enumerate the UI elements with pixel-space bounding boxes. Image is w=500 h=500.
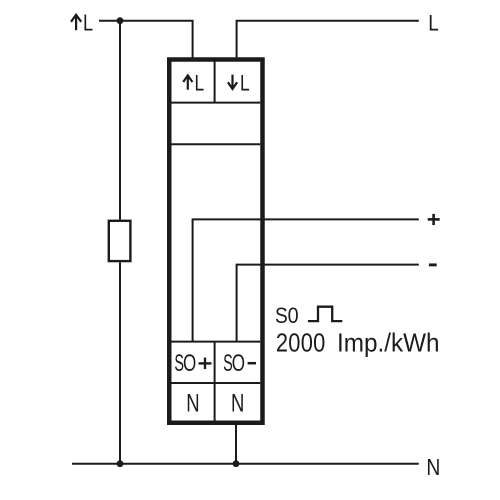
svg-text:N: N	[231, 389, 244, 417]
wire N line	[72, 463, 419, 465]
label - (SO- output)	[429, 263, 437, 266]
wire from ↑L label to meter top terminal	[99, 21, 193, 59]
svg-text:L: L	[195, 72, 205, 96]
svg-text:N: N	[426, 456, 440, 481]
terminal label SO+	[174, 350, 196, 377]
wire from meter ↓L terminal up and right to L	[237, 21, 419, 59]
S0 pulse symbol	[308, 307, 342, 321]
svg-text:O: O	[183, 350, 196, 377]
svg-text:L: L	[240, 72, 250, 96]
wire SO+ output	[193, 219, 419, 341]
wire from fuse down to N line	[119, 262, 121, 463]
label 2000 Imp./kWh	[276, 329, 440, 358]
wire from meter N terminal down to N line	[235, 425, 237, 464]
junction dot B (fuse branch on N line)	[117, 460, 124, 467]
terminal label ↓L arrow (cell 2)	[228, 75, 237, 89]
junction dot C (meter N on N line)	[233, 460, 240, 467]
meter bottom terminal divider	[214, 342, 216, 421]
label S0	[275, 304, 299, 329]
junction dot A	[117, 17, 124, 24]
meter terminal divider between ↑L and ↓L cells	[214, 60, 216, 103]
svg-text:Imp./kWh: Imp./kWh	[337, 329, 440, 358]
meter SO terminal row top line	[172, 341, 261, 343]
wire SO- output	[237, 265, 419, 342]
svg-text:S: S	[275, 304, 288, 329]
label ↑L (incoming line) arrow	[71, 15, 81, 30]
svg-text:L: L	[428, 11, 439, 36]
svg-text:O: O	[232, 350, 245, 377]
svg-text:L: L	[83, 10, 93, 36]
meter line between SO row and N row	[172, 382, 261, 384]
meter terminal row separator (below ↑L ↓L cells)	[172, 102, 261, 104]
terminal label ↑L arrow (cell 1)	[183, 75, 192, 89]
svg-text:2000: 2000	[276, 329, 326, 358]
svg-text:0: 0	[288, 304, 299, 328]
wire from junction down to fuse	[119, 21, 121, 220]
terminal label SO-	[223, 350, 245, 377]
fuse F1	[109, 221, 131, 261]
meter inner horizontal line 2	[172, 143, 261, 145]
svg-text:N: N	[186, 389, 199, 417]
energy meter U1 outline	[169, 60, 262, 423]
label + (SO+ output)	[428, 214, 440, 225]
